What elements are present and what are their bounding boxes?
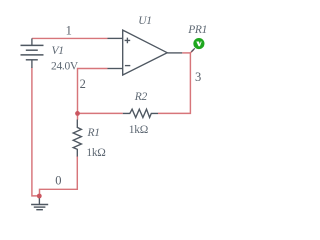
svg-text:V1: V1 bbox=[52, 45, 64, 57]
wire R1 bottom to ground node bbox=[40, 156, 78, 196]
battery V1 bbox=[21, 38, 44, 68]
wire feedback right: R2 right lead up to output corner bbox=[158, 53, 190, 114]
svg-text:R2: R2 bbox=[134, 91, 148, 103]
svg-text:24.0V: 24.0V bbox=[51, 61, 79, 73]
resistor R2 bbox=[123, 109, 158, 117]
wire inverting input: corner at (77.5,68.5) down to feedback node bbox=[78, 69, 108, 114]
op-amp U1 bbox=[108, 30, 183, 75]
svg-text:2: 2 bbox=[80, 77, 86, 91]
probe PR1 (voltage probe head) bbox=[193, 38, 204, 49]
wire output: op-amp output stub to corner bbox=[182, 52, 190, 54]
junction at node 0 (ground) bbox=[37, 194, 42, 199]
svg-text:0: 0 bbox=[55, 173, 61, 187]
junction at node 2 (feedback) bbox=[75, 111, 80, 116]
svg-text:R1: R1 bbox=[87, 127, 100, 139]
wire top: battery + to op-amp non-inverting input bbox=[32, 37, 108, 39]
wire battery - down to ground node bbox=[32, 68, 40, 196]
wire R1 top: feedback node to R1 bbox=[77, 113, 79, 119]
svg-text:U1: U1 bbox=[138, 15, 151, 27]
wire probe diagonal bbox=[190, 50, 193, 53]
resistor R1 bbox=[73, 120, 81, 157]
svg-text:3: 3 bbox=[195, 70, 201, 84]
wire feedback left: node to R2 left lead bbox=[78, 112, 123, 114]
svg-text:1: 1 bbox=[66, 24, 72, 38]
ground bbox=[31, 196, 48, 210]
svg-text:1kΩ: 1kΩ bbox=[129, 124, 148, 136]
svg-text:PR1: PR1 bbox=[187, 24, 207, 36]
svg-text:1kΩ: 1kΩ bbox=[86, 147, 105, 159]
probe PR1 lead bbox=[191, 48, 194, 51]
